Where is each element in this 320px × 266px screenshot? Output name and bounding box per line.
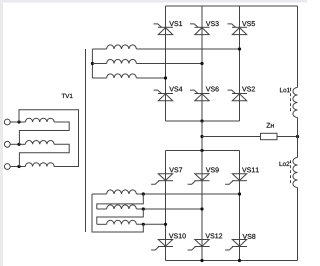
junction [200,259,203,262]
inductor Lo1 [280,88,297,118]
wire bridge1 leg 1 [165,6,167,121]
thyristor VS4 [154,87,183,101]
primary winding W1 [19,118,54,122]
wire bridge2 leg 1 [165,151,167,261]
wire right bus lower [297,188,299,261]
wire load line right [277,136,298,138]
input terminal phase B [4,141,10,147]
wire [10,166,19,168]
junction [142,192,145,195]
secondary winding W7 [92,190,136,194]
thyristor VS9 [188,167,219,184]
junction [238,259,241,262]
junction [164,76,167,79]
wire [136,208,202,210]
junction [91,62,94,65]
wire [136,223,165,225]
secondary winding W5 [92,59,136,63]
wire bridge1 bottom bus [166,120,240,122]
junction [164,223,167,226]
thyristor VS1 [154,21,183,34]
wire [10,143,19,145]
junction [142,207,145,210]
thyristor VS11 [225,167,259,184]
thyristor VS10 [151,233,186,250]
thyristor VS6 [190,87,219,101]
wire right bus upper [297,6,299,88]
wire [10,121,19,123]
wire [136,48,239,50]
wire right bus middle [297,118,299,158]
secondary winding W9 [97,220,137,224]
transformer TV1 label [62,94,73,98]
thyristor VS12 [188,233,223,250]
junction [200,62,203,65]
wire bridge2 bottom bus [166,260,298,262]
junction [238,192,241,195]
junction [200,135,203,138]
thyristor VS7 [151,167,182,184]
junction [17,143,20,146]
wire [136,63,202,65]
junction [142,223,145,226]
wire bridge1 leg 2 [201,6,203,121]
wire delta link W9-W7 [92,194,143,232]
junction [200,149,203,152]
wire [136,77,165,79]
wire primary link W2-W3 [19,144,69,166]
wire top bus [166,5,298,7]
input terminal phase A [4,119,10,125]
wire load line left [202,136,261,138]
transformer TV1 core [85,49,87,232]
wire [136,193,239,195]
wire delta link W8-W9 [97,209,144,224]
primary winding W2 [19,141,54,145]
wire star neutral [91,49,93,78]
wire primary link W3-W1 [19,110,79,167]
thyristor VS2 [228,87,255,101]
junction [296,135,299,138]
primary winding W3 [19,163,54,167]
wire bridge2 leg 2 [201,151,203,261]
inductor Lo2 [280,158,298,188]
junction [238,47,241,50]
input terminal phase C [4,164,10,170]
secondary winding W4 [92,45,136,49]
wire bridge link [201,121,203,151]
junction [17,165,20,168]
thyristor VS3 [190,21,219,34]
secondary winding W6 [92,74,136,78]
resistor Zн [261,123,278,140]
thyristor VS8 [225,234,255,250]
thyristor VS5 [228,21,255,34]
junction [200,119,203,122]
wire delta link W7-W8 [97,194,144,209]
junction [200,207,203,210]
wire bridge1 leg 3 [239,6,241,121]
wire bridge2 top bus [166,150,240,152]
wire bridge2 leg 3 [239,151,241,261]
wire primary link W1-W2 [19,122,69,144]
junction [17,120,20,123]
secondary winding W8 [97,205,137,209]
